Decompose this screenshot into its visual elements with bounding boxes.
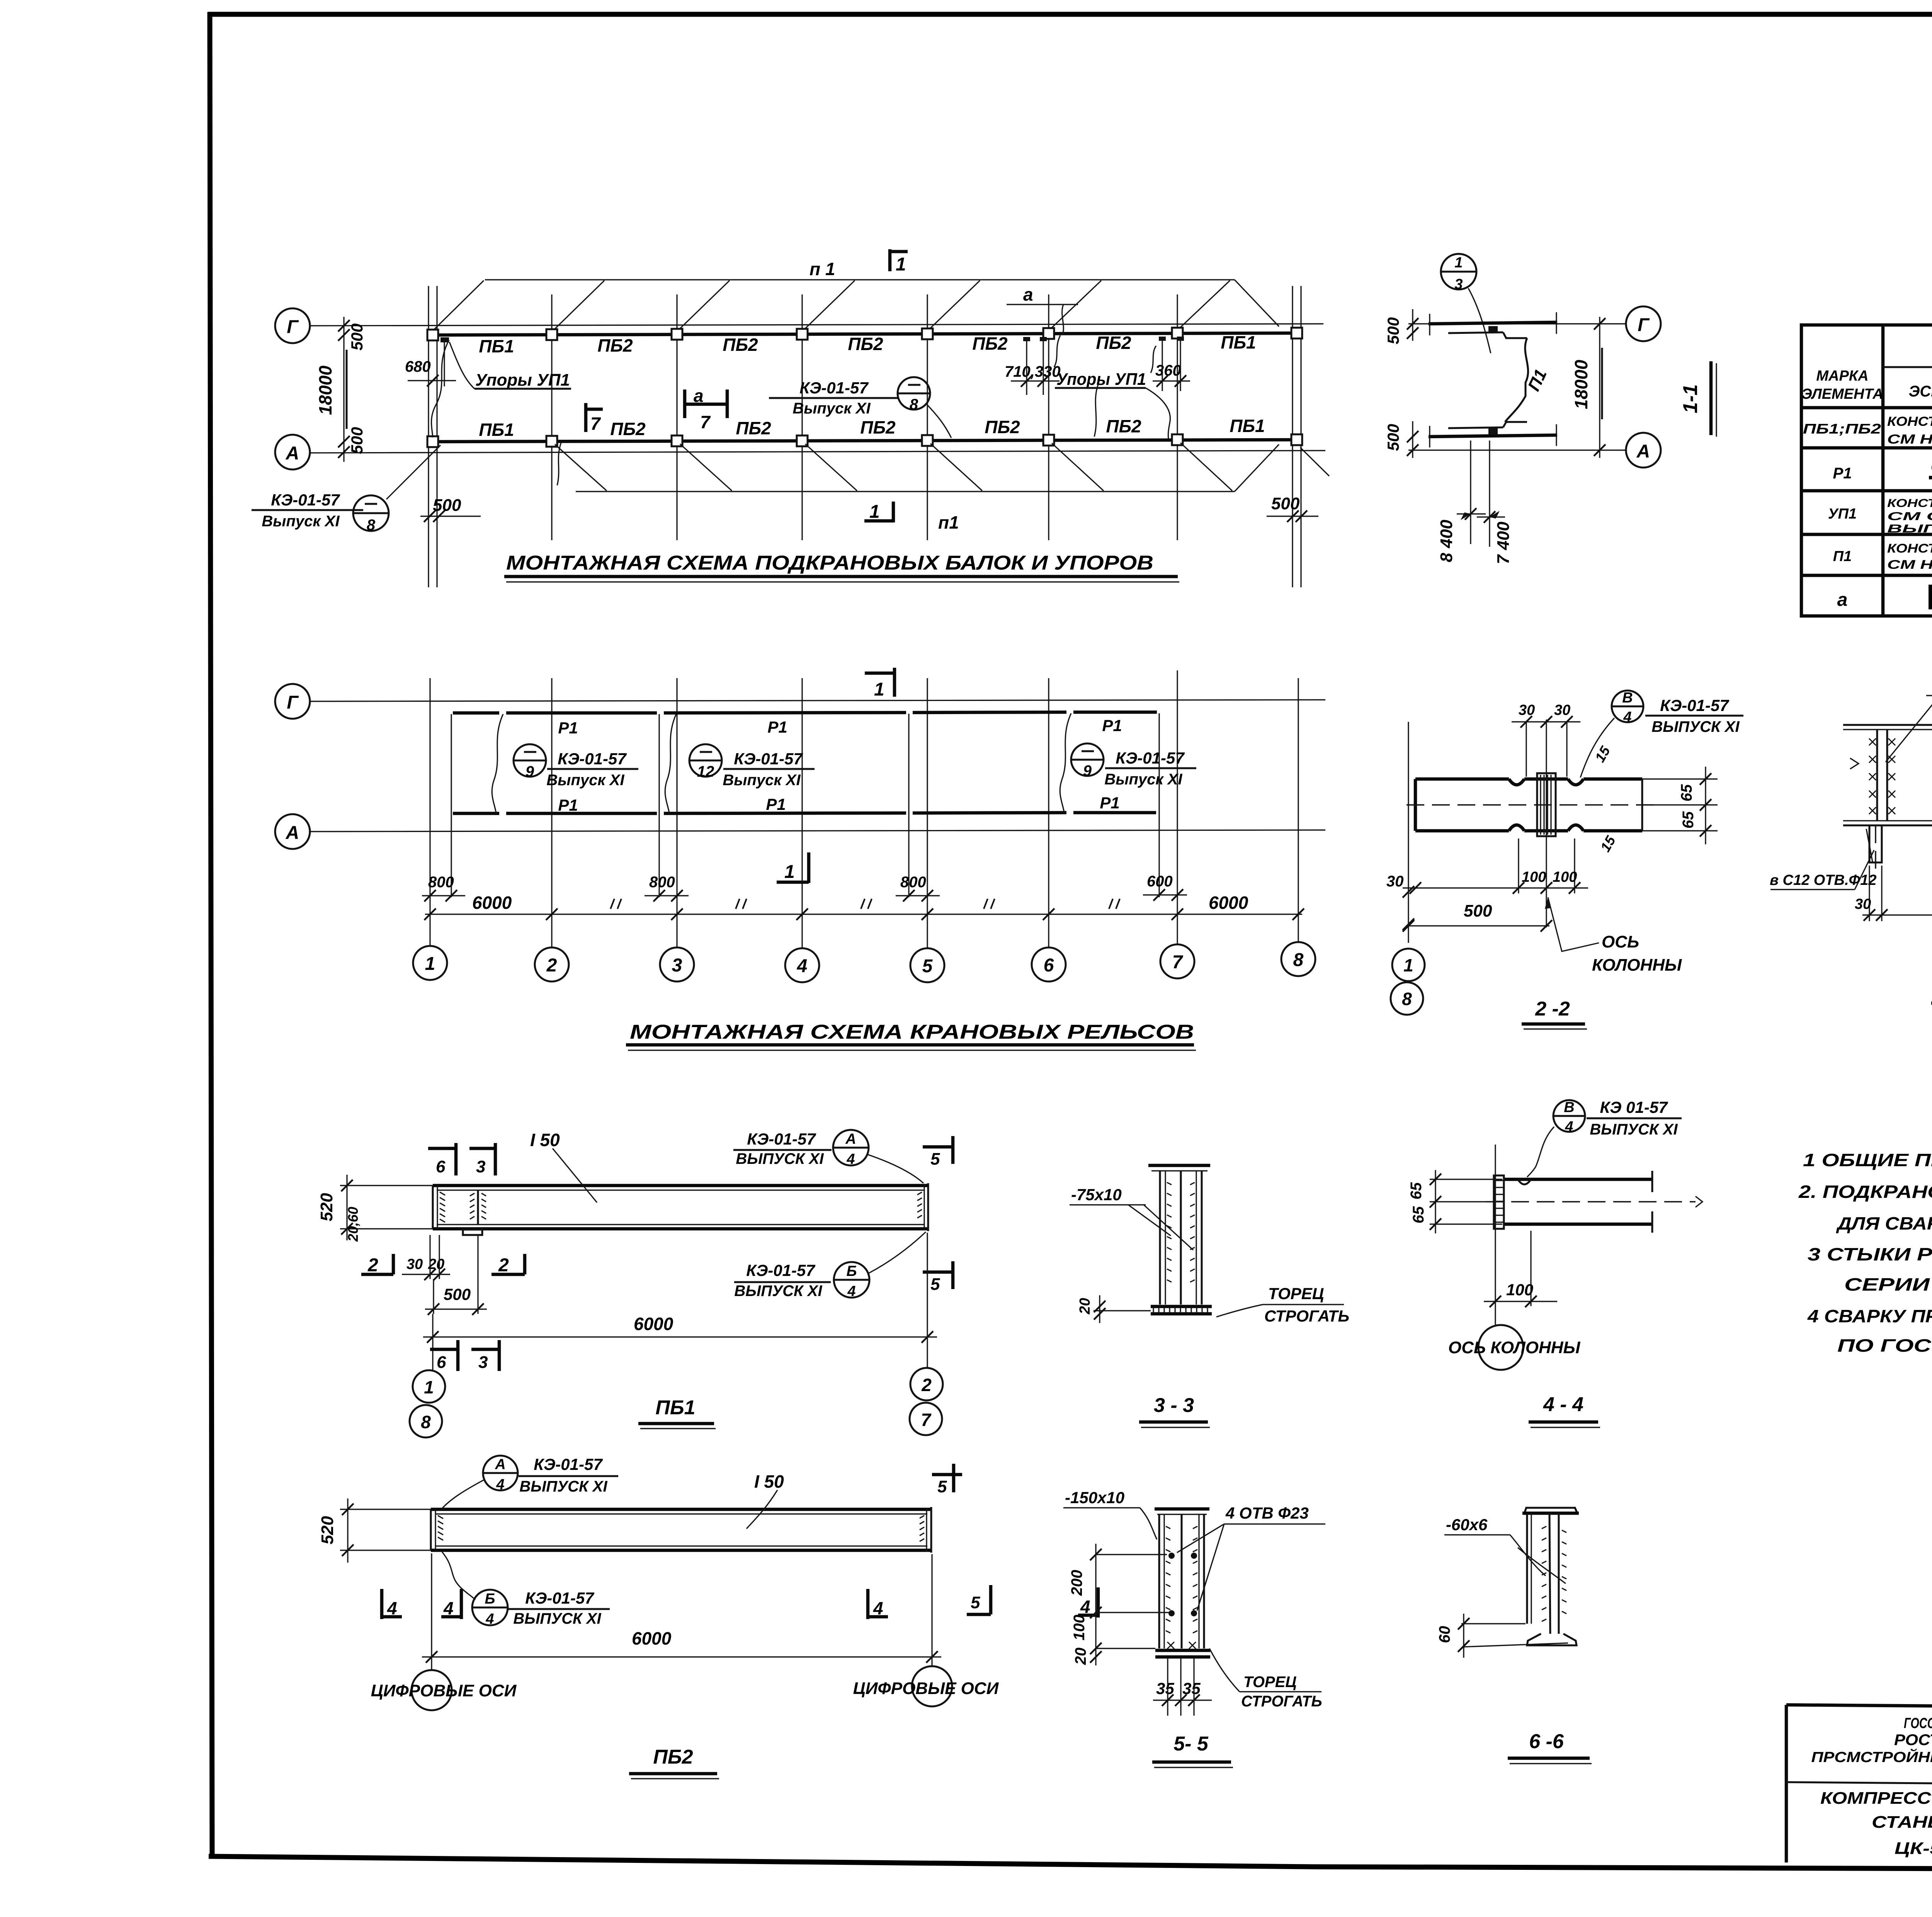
svg-text:ПРСМСТРОЙНИНПРОЕКТ: ПРСМСТРОЙНИНПРОЕКТ [1811, 1748, 1932, 1766]
svg-text:12: 12 [697, 763, 714, 780]
PB2 bottom flange [431, 1546, 931, 1550]
svg-text:5: 5 [930, 1275, 940, 1294]
svg-text:7: 7 [700, 412, 711, 432]
PB1 bottom flange [433, 1225, 928, 1229]
section 1-1 dims 8400 7400 [1437, 441, 1513, 564]
column line 8 (double) [1293, 286, 1301, 587]
column line 6 [1048, 294, 1049, 540]
PB1 dim 6000 [423, 1233, 937, 1370]
svg-text:ЭЛЕМЕНТА: ЭЛЕМЕНТА [1801, 386, 1883, 402]
svg-text:20,60: 20,60 [345, 1207, 361, 1242]
svg-text:4: 4 [797, 956, 808, 976]
elements table grid [1801, 325, 1932, 616]
svg-text:ВЫПУСК XI: ВЫПУСК XI [519, 1478, 607, 1495]
svg-text:ПБ1: ПБ1 [1221, 332, 1256, 352]
svg-text:Б: Б [485, 1591, 495, 1607]
svg-text:7: 7 [921, 1410, 932, 1430]
svg-text:Р1: Р1 [558, 719, 578, 737]
svg-text:КЭ-01-57: КЭ-01-57 [747, 1130, 816, 1148]
svg-text:КОЛОННЫ: КОЛОННЫ [1592, 956, 1682, 975]
crane beam line row A [434, 440, 1298, 442]
svg-text:Р1: Р1 [1100, 794, 1119, 812]
svg-text:65: 65 [1408, 1182, 1425, 1199]
svg-text:Б: Б [847, 1263, 857, 1279]
svg-text:КЭ-01-57: КЭ-01-57 [271, 491, 340, 509]
crane beam line row G [434, 333, 1298, 335]
PB2 cut flag 5 right lower [967, 1585, 991, 1614]
svg-text:УП1: УП1 [1828, 506, 1857, 522]
section 4-4 notch [1518, 1179, 1531, 1184]
rail break wavy 1 [492, 714, 503, 813]
PB1 ref KE-01-57 circle B/4 [734, 1232, 926, 1300]
svg-text:А: А [1636, 441, 1650, 462]
sheet frame bottom border [209, 1856, 1932, 1870]
PB1 left end plate with welds [433, 1186, 445, 1229]
title block outline [1786, 1705, 1932, 1868]
axis bubble A rails [275, 814, 310, 849]
dim 680 [405, 342, 456, 386]
section 1-1 axis bubble G [1626, 306, 1661, 341]
svg-text:ЦК-500 А: ЦК-500 А [1895, 1839, 1932, 1858]
section 1-1 P1 zigzag member [1505, 338, 1528, 422]
column line 7 [1177, 294, 1178, 540]
PB2 cut flag 5 top right [932, 1464, 962, 1496]
section 1-1 axis bubble A [1626, 433, 1661, 468]
svg-text:1 ОБЩИЕ ПРИМЕЧАНИЯ СМОТРИТЕ: 1 ОБЩИЕ ПРИМЕЧАНИЯ СМОТРИТЕ НА ЛИСТЕ КМ-… [1803, 1150, 1932, 1170]
section 5-5 left dims 200 100 20 [1068, 1544, 1169, 1665]
main dimension line rails [424, 893, 1304, 920]
svg-text:1: 1 [869, 502, 880, 522]
svg-text:-60х6: -60х6 [1446, 1516, 1488, 1534]
svg-text:ЦИФРОВЫЕ ОСИ: ЦИФРОВЫЕ ОСИ [371, 1681, 517, 1700]
svg-text:500: 500 [1464, 902, 1492, 920]
section 3-3 column cap [1148, 1165, 1210, 1171]
svg-text:8: 8 [421, 1412, 431, 1432]
svg-text:СМ СЕРИЮ КЭ-01-57: СМ СЕРИЮ КЭ-01-57 [1887, 510, 1932, 523]
PB1 cut flag 3 below [471, 1340, 499, 1372]
svg-text:ПО ГОСТ 9467-75: ПО ГОСТ 9467-75 [1837, 1335, 1932, 1356]
svg-text:30: 30 [1519, 702, 1535, 718]
top brace chord P1 [485, 279, 1235, 280]
ref circle 1/3 [1441, 254, 1491, 353]
axis bubble A [275, 435, 310, 469]
left dim 18000 [315, 317, 350, 462]
svg-text:1: 1 [874, 679, 884, 700]
svg-text:СМ НА ДАННОМ ЛИСТЕ: СМ НА ДАННОМ ЛИСТЕ [1887, 432, 1932, 447]
svg-text:ПБ2: ПБ2 [653, 1746, 693, 1768]
svg-text:520: 520 [318, 1516, 337, 1544]
section 2-2 title [1522, 998, 1587, 1029]
PB1 dim 500 [425, 1235, 487, 1315]
svg-text:6: 6 [1044, 955, 1054, 976]
svg-text:Выпуск XI: Выпуск XI [1104, 771, 1182, 788]
svg-text:65: 65 [1410, 1206, 1427, 1223]
series ref KE-01-57 circle 8 lower left [252, 445, 440, 534]
rail joint extension lines [451, 713, 1159, 897]
svg-text:500: 500 [444, 1285, 471, 1303]
section 4-4 dims 65 65 [1408, 1170, 1502, 1233]
svg-text:ВЫПУСК XI: ВЫПУСК XI [1590, 1121, 1678, 1138]
svg-text:СМ НА ЛИСТЕ КМ-13: СМ НА ЛИСТЕ КМ-13 [1887, 558, 1932, 572]
svg-text:7: 7 [1172, 952, 1184, 973]
dim 800 at column 3 [645, 874, 689, 902]
svg-text:7: 7 [590, 413, 601, 434]
PB1 ref KE-01-57 circle A/4 [733, 1130, 923, 1183]
svg-text:ПБ2: ПБ2 [972, 333, 1008, 354]
section 1-1 beam A [1429, 422, 1557, 447]
svg-text:18000: 18000 [1571, 360, 1591, 409]
stop marks near column 6 [1023, 337, 1047, 341]
svg-text:4: 4 [873, 1598, 883, 1618]
rails plan title [626, 1021, 1196, 1050]
svg-text:Г: Г [1638, 315, 1650, 335]
rail break wavy 2 [665, 714, 676, 813]
svg-text:КОНСТРУКТИВНЫЕ ЧЕРТЕЖИ: КОНСТРУКТИВНЫЕ ЧЕРТЕЖИ [1887, 497, 1932, 510]
table row UP1 [1828, 497, 1932, 535]
section 1-1 dim 500 top [1384, 309, 1418, 344]
svg-text:ВЫПУСК XI: ВЫПУСК XI [513, 1610, 601, 1627]
svg-text:ДЛЯ СВАРНЫХ КОНСТРУКЦИЙ ПО ГОС: ДЛЯ СВАРНЫХ КОНСТРУКЦИЙ ПО ГОСТ 380-71* [1836, 1213, 1932, 1233]
svg-text:6: 6 [437, 1353, 446, 1372]
svg-text:5: 5 [937, 1477, 947, 1496]
svg-text:МОНТАЖНАЯ СХЕМА ПОДКРАНОВЫХ: МОНТАЖНАЯ СХЕМА ПОДКРАНОВЫХ БАЛОК И УПОР… [506, 552, 1153, 574]
svg-text:65: 65 [1678, 784, 1695, 801]
svg-text:Р1: Р1 [766, 795, 786, 813]
svg-text:2: 2 [498, 1255, 509, 1276]
PB2 dim 520 left [318, 1499, 431, 1563]
section 5-5 column cap [1155, 1509, 1209, 1514]
sheet frame left border [210, 12, 212, 1857]
svg-text:МАРКА: МАРКА [1816, 368, 1868, 384]
svg-text:СЕРИИ КЭ-01-57 ВЫПУСК XI.: СЕРИИ КЭ-01-57 ВЫПУСК XI. [1844, 1274, 1932, 1294]
table row a [1837, 587, 1932, 611]
svg-text:ВЫПУСК XI: ВЫПУСК XI [1651, 718, 1740, 735]
svg-text:КЭ-01-57: КЭ-01-57 [799, 379, 869, 397]
svg-text:ЭСКИЗ: ЭСКИЗ [1909, 383, 1932, 400]
svg-text:КЭ-01-57: КЭ-01-57 [525, 1589, 594, 1607]
dim 500 bottom left [420, 496, 481, 522]
svg-text:500: 500 [348, 427, 366, 454]
svg-text:800: 800 [428, 874, 454, 891]
svg-text:710,330: 710,330 [1005, 363, 1061, 380]
svg-text:СТРОГАТЬ: СТРОГАТЬ [1241, 1693, 1322, 1710]
svg-text:ЦИФРОВЫЕ ОСИ: ЦИФРОВЫЕ ОСИ [853, 1679, 999, 1698]
svg-text:4 ОТВ Ф23: 4 ОТВ Ф23 [1225, 1504, 1309, 1522]
section 1-1 axis G stub [1408, 323, 1626, 324]
PB1 dim 520 left [317, 1175, 433, 1242]
svg-text:Выпуск XI: Выпуск XI [723, 772, 801, 789]
section 1-1 dim 500 bottom [1384, 421, 1418, 458]
svg-text:ПБ2: ПБ2 [610, 419, 646, 439]
svg-text:500: 500 [1384, 424, 1402, 451]
PB1 bottom bracket [463, 1230, 482, 1235]
axis A line [309, 451, 1325, 453]
svg-text:4: 4 [387, 1598, 397, 1618]
svg-text:ПБ2: ПБ2 [736, 418, 771, 438]
svg-text:А: А [286, 443, 299, 464]
svg-text:ГОССТРОЙ СССР: ГОССТРОЙ СССР [1904, 1714, 1932, 1732]
section 3-3 base plate [1151, 1306, 1212, 1314]
svg-text:6: 6 [436, 1157, 446, 1176]
section 2-2 dim 500 [1403, 902, 1552, 932]
svg-text:-75х10: -75х10 [1071, 1186, 1122, 1204]
title block object text [1820, 1789, 1932, 1858]
section 5-5 label -150x10 [1063, 1488, 1157, 1539]
section 6-6 vertical plate [1527, 1513, 1531, 1624]
section 3-3 dim 20 [1077, 1295, 1151, 1323]
section 6-6 cap plate [1522, 1508, 1579, 1513]
svg-text:СТАНЦИЯ: СТАНЦИЯ [1872, 1813, 1932, 1832]
axis A line rails [309, 830, 1325, 832]
top plan title [504, 552, 1179, 582]
beam labels row G [479, 332, 1256, 356]
PB1 cut flag 6 top [428, 1143, 456, 1176]
svg-text:5: 5 [930, 1150, 940, 1169]
svg-text:ПБ1: ПБ1 [1230, 416, 1265, 436]
bottom brace chord P1 [576, 491, 1235, 492]
section cut 7 mark right with a [685, 386, 727, 432]
svg-text:5: 5 [971, 1593, 980, 1612]
column line 4 [801, 294, 803, 540]
svg-text:100: 100 [1553, 869, 1577, 885]
svg-text:1: 1 [896, 254, 906, 275]
section 2-2 splice plate [1537, 773, 1556, 836]
svg-text:4: 4 [846, 1151, 855, 1167]
PB1 cut flag 2 left [361, 1254, 393, 1276]
break wavy on beam A near column 6 [1094, 384, 1098, 437]
section cut mark 1 rails top [865, 668, 895, 700]
svg-text:5- 5: 5- 5 [1173, 1733, 1209, 1755]
section 1-1 beam G [1429, 312, 1557, 338]
dim 500 bottom right [1267, 494, 1318, 522]
section 2-2 rail bar [1415, 779, 1642, 831]
svg-text:3: 3 [672, 955, 682, 976]
PB1 dims 30 20 [402, 1235, 450, 1280]
svg-text:ПБ2: ПБ2 [597, 335, 633, 356]
section 2-2 left reference line [1386, 722, 1414, 943]
section 6-6 rail foot [1527, 1634, 1577, 1645]
svg-text:ПБ1;ПБ2: ПБ1;ПБ2 [1803, 421, 1881, 437]
svg-text:-150х10: -150х10 [1065, 1488, 1124, 1507]
column squares row G [427, 328, 1302, 340]
svg-text:6 -6: 6 -6 [1529, 1730, 1564, 1753]
section 3-3 label -75x10 [1070, 1186, 1193, 1250]
svg-text:35: 35 [1156, 1679, 1174, 1698]
break wavy near column 1 [432, 340, 449, 437]
rail label R1 row A [558, 794, 1119, 814]
axis G line rails [309, 700, 1325, 701]
table row R1 [1833, 463, 1932, 482]
svg-text:п1: п1 [938, 512, 959, 532]
section 6-6 label -60x6 [1444, 1516, 1566, 1584]
svg-text:ВЫПУСК XI: ВЫПУСК XI [736, 1150, 824, 1167]
column line 2 [551, 294, 552, 540]
section 4-4 splice plate [1494, 1175, 1504, 1229]
section 4-4 title [1529, 1393, 1600, 1427]
dim 360 [1151, 340, 1190, 391]
svg-text:ОСЬ КОЛОННЫ: ОСЬ КОЛОННЫ [1448, 1338, 1580, 1357]
section 4-4 ref circle V/4 [1527, 1098, 1682, 1177]
section 7-7 title [1931, 976, 1932, 1008]
svg-text:800: 800 [649, 874, 675, 891]
bottom brace diagonals [555, 443, 1329, 491]
section 7-7 label b=6 [1886, 676, 1932, 797]
svg-text:ВЫПУСК XI ЛИСТ 15: ВЫПУСК XI ЛИСТ 15 [1887, 522, 1932, 535]
svg-text:6000: 6000 [632, 1628, 672, 1648]
svg-text:7 400: 7 400 [1494, 521, 1513, 564]
svg-text:ТОРЕЦ: ТОРЕЦ [1243, 1674, 1297, 1691]
svg-text:В: В [1564, 1099, 1574, 1116]
stop marks near column 7 [1159, 337, 1184, 341]
bottom brace closing diagonal [1235, 444, 1279, 492]
svg-text:П1: П1 [1833, 548, 1852, 565]
break wavy on beam G near column 6 [1054, 335, 1060, 367]
svg-text:ПБ1: ПБ1 [479, 420, 514, 440]
svg-text:КОНСТРУКТИВНЫЕ ЧЕРТЕЖИ: КОНСТРУКТИВНЫЕ ЧЕРТЕЖИ [1887, 414, 1932, 429]
svg-text:а: а [1023, 284, 1033, 304]
svg-text:1: 1 [424, 1377, 434, 1397]
svg-text:3: 3 [1454, 276, 1463, 293]
svg-text:КЭ-01-57: КЭ-01-57 [1116, 749, 1185, 767]
sheet frame top border [208, 12, 1932, 17]
svg-text:КЭ-01-57: КЭ-01-57 [746, 1261, 815, 1279]
svg-text:Г: Г [287, 692, 299, 713]
svg-text:ТОРЕЦ: ТОРЕЦ [1268, 1284, 1324, 1303]
dim 600 at column 7 [1143, 873, 1187, 901]
column line 5 [927, 294, 928, 540]
svg-text:30: 30 [1386, 873, 1404, 890]
section 2-2 label axis of column [1545, 897, 1682, 975]
svg-text:КОМПРЕССОРНАЯ: КОМПРЕССОРНАЯ [1820, 1789, 1932, 1808]
svg-text:6000: 6000 [634, 1314, 673, 1334]
PB1 top flange [433, 1186, 928, 1190]
PB2 wavy leader to circle B [442, 1552, 475, 1600]
column squares row A [427, 434, 1302, 447]
PB2 title [629, 1746, 719, 1779]
PB1 grid bubbles 2 7 [910, 1368, 943, 1435]
table header labels [1801, 340, 1932, 402]
svg-text:4 - 4: 4 - 4 [1543, 1393, 1583, 1416]
section cut mark 1 rails bottom [777, 852, 809, 883]
section cut mark 1 bottom [864, 502, 893, 522]
PB1 label I50 [530, 1130, 597, 1203]
svg-text:Р1: Р1 [558, 796, 578, 814]
series ref KE-01-57 with circle 8 [769, 377, 951, 438]
svg-text:100: 100 [1071, 1615, 1088, 1641]
svg-text:4: 4 [1623, 709, 1631, 725]
section 3-3 flanges [1160, 1171, 1202, 1305]
svg-text:2: 2 [367, 1255, 378, 1276]
svg-text:65: 65 [1680, 811, 1697, 828]
svg-text:Выпуск XI: Выпуск XI [262, 513, 340, 530]
section 7-7 bottom dims 30 710 30 [1855, 866, 1932, 921]
section 2-2 grid bubbles 1 8 [1391, 949, 1425, 1015]
svg-text:20: 20 [1072, 1648, 1089, 1665]
PB1 cut flag 5 top right [923, 1136, 953, 1169]
axis bubble G rails [275, 684, 310, 719]
svg-text:Выпуск XI: Выпуск XI [793, 400, 871, 417]
section 2-2 bottom dims 100 100 [1403, 839, 1588, 894]
svg-text:8: 8 [367, 517, 376, 534]
PB2 ref circle A/4 with text [441, 1455, 618, 1509]
svg-text:30: 30 [1554, 702, 1570, 718]
axis bubble G [275, 308, 310, 343]
svg-text:6000: 6000 [1209, 893, 1248, 913]
svg-text:В: В [1622, 690, 1633, 706]
section 4-4 column axis [1495, 1145, 1496, 1325]
section 7-7 channel stub left [1866, 825, 1882, 876]
svg-text:ПБ2: ПБ2 [985, 417, 1020, 437]
section 4-4 axis of column label with circle [1448, 1325, 1580, 1370]
svg-text:ОСЬ: ОСЬ [1602, 932, 1639, 951]
break wavy on beam A near column 2 [557, 443, 561, 485]
section 3-3 web [1180, 1171, 1182, 1305]
svg-text:А: А [286, 823, 299, 843]
PB2 dim 6000 [422, 1553, 941, 1670]
PB2 ref circle B/4 with text [472, 1589, 610, 1627]
PB1 stiffener with welds [470, 1190, 486, 1225]
top brace closing diagonal [1235, 280, 1279, 327]
svg-text:ПБ1: ПБ1 [479, 336, 514, 356]
section 5-5 title [1152, 1733, 1233, 1767]
column line 3 [676, 294, 677, 540]
svg-text:СТРОГАТЬ: СТРОГАТЬ [1264, 1307, 1349, 1325]
svg-text:ПБ2: ПБ2 [723, 335, 758, 355]
svg-text:КЭ-01-57: КЭ-01-57 [734, 750, 803, 768]
PB1 cut flag 2 mid [492, 1254, 525, 1276]
svg-text:п 1: п 1 [810, 259, 835, 279]
section 1-1 title rotated [1679, 361, 1716, 437]
svg-text:КОНСТРУКТИВНЫЕ ЧЕРТЕЖИ: КОНСТРУКТИВНЫЕ ЧЕРТЕЖИ [1887, 541, 1932, 555]
svg-text:9: 9 [526, 763, 534, 780]
svg-text:8: 8 [910, 396, 918, 413]
svg-text:5: 5 [922, 956, 933, 976]
section 7-7 end break marks [1850, 758, 1932, 769]
dim 800 at column 1 [422, 874, 465, 902]
svg-text:500: 500 [348, 323, 366, 350]
svg-text:30: 30 [1855, 896, 1871, 912]
svg-text:3 СТЫКИ РЕЛЬСОВ ВЫПОЛНИТЬ П: 3 СТЫКИ РЕЛЬСОВ ВЫПОЛНИТЬ ПО ДЕТАЛИ НА Л… [1808, 1244, 1932, 1264]
svg-text:4: 4 [847, 1283, 855, 1300]
section 2-2 dashed centerline [1406, 804, 1656, 806]
svg-text:800: 800 [900, 874, 926, 891]
section 5-5 label torec strogat [1209, 1648, 1322, 1710]
top brace diagonals [434, 281, 1230, 329]
dim 800 at column 5 [896, 874, 940, 902]
svg-text:6000: 6000 [472, 893, 512, 913]
svg-text:I 50: I 50 [754, 1471, 784, 1492]
PB2 top flange [431, 1509, 931, 1514]
axis G line [309, 324, 1323, 326]
section 2-2 dims 15 65 65 15 right [1592, 743, 1718, 854]
section 5-5 flanges [1159, 1514, 1204, 1648]
rail break wavy 3 [1060, 713, 1071, 812]
PB1 cut flag 3 top [469, 1143, 495, 1176]
svg-text:2: 2 [921, 1375, 932, 1395]
svg-text:3 - 3: 3 - 3 [1154, 1394, 1194, 1417]
label Upory UP1 right [1055, 370, 1170, 439]
svg-text:КЭ-01-57: КЭ-01-57 [1660, 696, 1729, 714]
PB2 left end plate welds [431, 1509, 443, 1550]
svg-text:18000: 18000 [315, 366, 335, 415]
section 3-3 label torec strogat [1216, 1284, 1349, 1325]
section 4-4 rail bar [1504, 1171, 1652, 1233]
section 5-5 base plate [1155, 1642, 1210, 1657]
section 5-5 bolt holes [1168, 1553, 1197, 1616]
rail R1 row G segments [453, 712, 1157, 713]
rail R1 row A segments [453, 813, 1156, 813]
svg-text:ПБ2: ПБ2 [848, 334, 883, 354]
